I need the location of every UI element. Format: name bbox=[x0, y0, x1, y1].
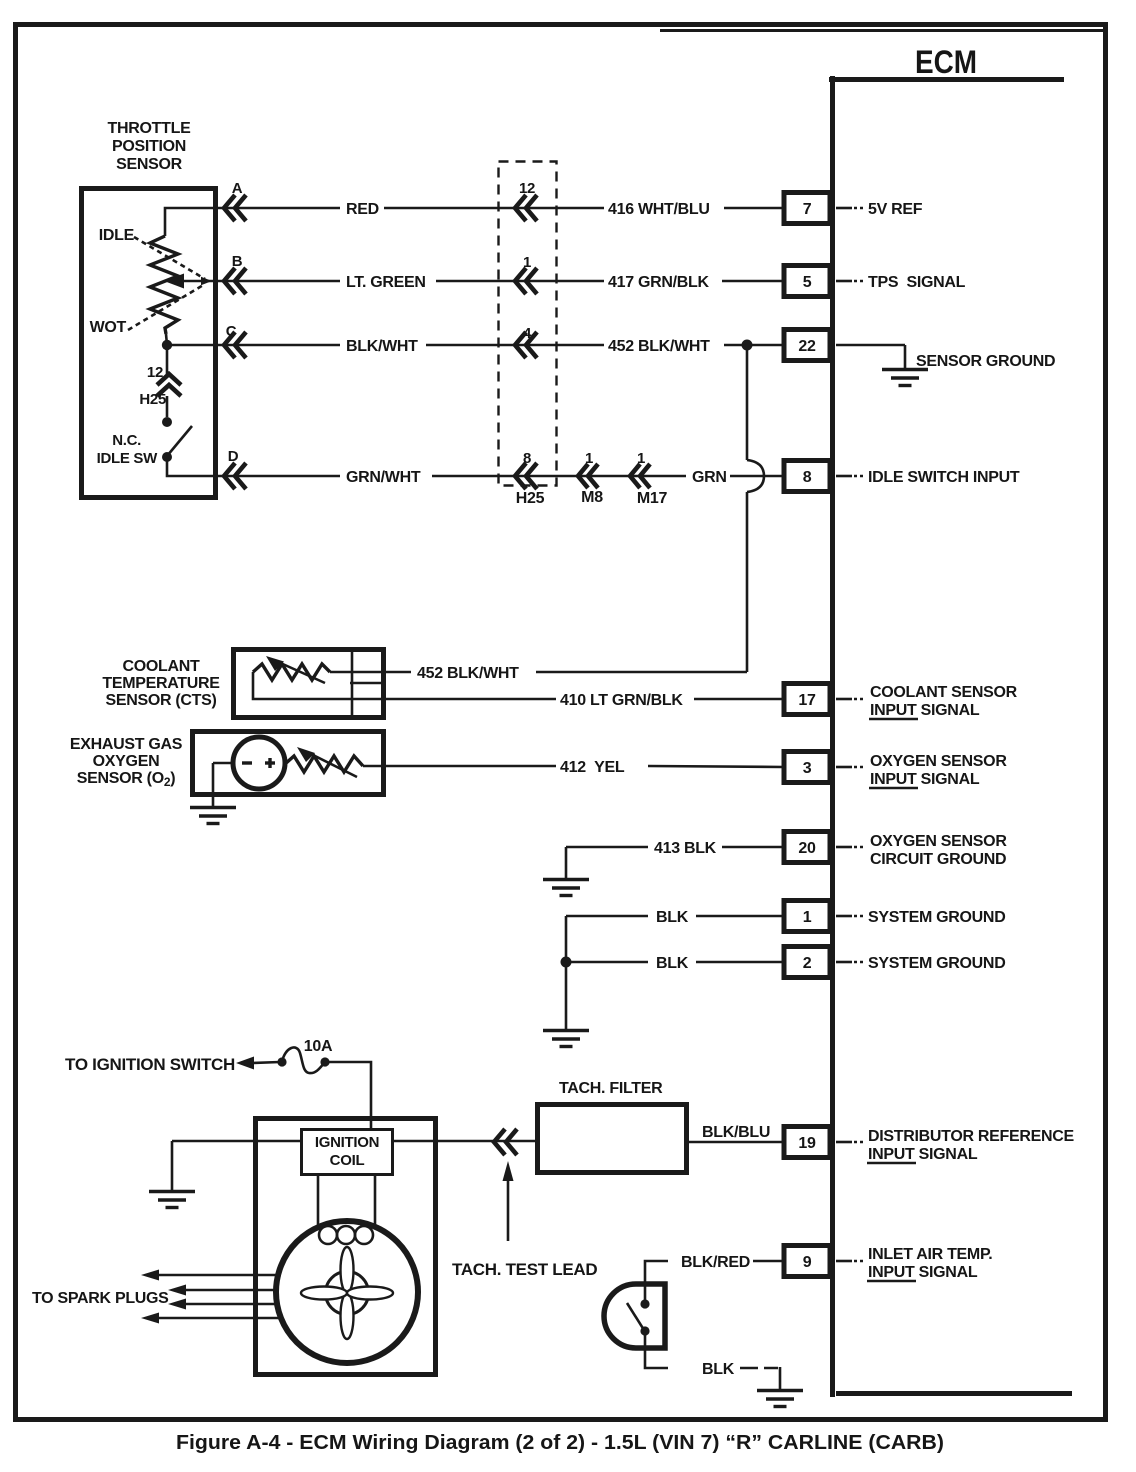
ECM pin 19 box bbox=[784, 1127, 830, 1158]
ignition coil box bbox=[302, 1130, 393, 1175]
svg-text:INPUT SIGNAL: INPUT SIGNAL bbox=[868, 1264, 978, 1281]
H25 pin 12 arrows bbox=[515, 195, 537, 221]
svg-text:22: 22 bbox=[798, 338, 816, 355]
IGNITION COIL label bbox=[315, 1134, 379, 1169]
M17 connector arrows bbox=[630, 464, 650, 488]
ECM pin 7 box bbox=[784, 193, 830, 224]
svg-text:COIL: COIL bbox=[330, 1152, 365, 1169]
svg-text:COOLANT: COOLANT bbox=[122, 658, 200, 675]
ECM pin 3 box bbox=[784, 752, 830, 783]
svg-text:17: 17 bbox=[798, 692, 816, 709]
pin 20 label OXYGEN SENSOR CIRCUIT GROUND bbox=[836, 833, 1007, 868]
svg-text:RED: RED bbox=[346, 201, 379, 218]
svg-text:413 BLK: 413 BLK bbox=[654, 840, 717, 857]
svg-text:INPUT SIGNAL: INPUT SIGNAL bbox=[870, 771, 980, 788]
svg-text:INLET AIR TEMP.: INLET AIR TEMP. bbox=[868, 1246, 992, 1263]
svg-text:INPUT SIGNAL: INPUT SIGNAL bbox=[868, 1146, 978, 1163]
wire 412 YEL bbox=[363, 766, 784, 767]
coil ground symbol bbox=[149, 1192, 195, 1208]
svg-text:Figure A-4 - ECM Wiring Diag: Figure A-4 - ECM Wiring Diagram (2 of 2)… bbox=[176, 1432, 944, 1454]
svg-text:GRN: GRN bbox=[692, 469, 727, 486]
pin 19 label DISTRIBUTOR REFERENCE INPUT SIGNAL bbox=[836, 1128, 1074, 1163]
junction dot 452 bbox=[742, 340, 753, 351]
terminal B connector arrows bbox=[224, 268, 246, 294]
coil left ground lead bbox=[171, 1141, 174, 1190]
coolant temperature sensor CTS labels bbox=[102, 658, 220, 709]
ECM pin 17 box bbox=[784, 684, 830, 715]
svg-text:SENSOR: SENSOR bbox=[116, 156, 183, 173]
svg-text:416 WHT/BLU: 416 WHT/BLU bbox=[608, 201, 710, 218]
svg-text:9: 9 bbox=[803, 1254, 812, 1271]
H25 pin 4 arrows bbox=[515, 332, 537, 358]
svg-text:10A: 10A bbox=[304, 1038, 333, 1055]
svg-text:TEMPERATURE: TEMPERATURE bbox=[102, 675, 220, 692]
pin 3 label OXYGEN SENSOR INPUT SIGNAL bbox=[836, 753, 1007, 788]
svg-text:TPS SIGNAL: TPS SIGNAL bbox=[868, 274, 966, 291]
inlet sensor ground symbol bbox=[757, 1391, 803, 1407]
svg-text:TACH. FILTER: TACH. FILTER bbox=[559, 1080, 663, 1097]
413 ground symbol bbox=[543, 880, 589, 896]
svg-text:19: 19 bbox=[798, 1135, 816, 1152]
svg-text:EXHAUST GAS: EXHAUST GAS bbox=[70, 736, 183, 753]
CTS internal wires bbox=[253, 672, 386, 699]
pin 9 label INLET AIR TEMP. INPUT SIGNAL bbox=[836, 1246, 992, 1281]
svg-text:BLK: BLK bbox=[702, 1361, 735, 1378]
wire 452 BLK/WHT vertical with hop over GRN bbox=[747, 345, 764, 672]
svg-text:GRN/WHT: GRN/WHT bbox=[346, 469, 421, 486]
distributor outer box bbox=[256, 1119, 436, 1375]
terminal D connector arrows bbox=[224, 463, 246, 489]
wire tach filter to pin 19 bbox=[687, 1141, 784, 1144]
ECM pin 22 box bbox=[784, 330, 830, 361]
wire 452 BLK/WHT from CTS bbox=[386, 671, 747, 674]
spark plug wire 1 bbox=[141, 1270, 281, 1281]
ECM box bbox=[829, 76, 1072, 1397]
svg-text:N.C.: N.C. bbox=[112, 432, 141, 449]
svg-text:SENSOR GROUND: SENSOR GROUND bbox=[916, 353, 1055, 370]
svg-text:IDLE SW: IDLE SW bbox=[97, 450, 159, 467]
svg-text:SENSOR (CTS): SENSOR (CTS) bbox=[105, 692, 216, 709]
wiper arrow bbox=[164, 274, 222, 289]
H25 pin 1 arrows bbox=[515, 268, 537, 294]
coil winding loops bbox=[319, 1226, 373, 1244]
ignition switch arrowhead bbox=[236, 1057, 254, 1070]
idle switch upper contact dot bbox=[162, 417, 172, 427]
terminal A connector arrows bbox=[224, 195, 246, 221]
exhaust gas oxygen sensor labels bbox=[70, 736, 183, 789]
wire 410 LT GRN/BLK bbox=[386, 698, 784, 701]
tach filter box bbox=[538, 1105, 687, 1173]
wire 413 BLK bbox=[566, 847, 784, 878]
dashed wiper travel lines bbox=[128, 237, 212, 330]
pin 2 label SYSTEM GROUND bbox=[836, 955, 1005, 972]
idle switch blade bbox=[162, 426, 192, 462]
svg-text:POSITION: POSITION bbox=[112, 138, 186, 155]
svg-text:LT. GREEN: LT. GREEN bbox=[346, 274, 426, 291]
svg-text:20: 20 bbox=[798, 840, 816, 857]
svg-text:M17: M17 bbox=[637, 490, 668, 507]
svg-text:H25: H25 bbox=[139, 391, 166, 408]
pin 7 label 5V REF bbox=[836, 201, 923, 218]
svg-text:TO IGNITION SWITCH: TO IGNITION SWITCH bbox=[65, 1055, 235, 1074]
svg-text:CIRCUIT GROUND: CIRCUIT GROUND bbox=[870, 851, 1006, 868]
svg-text:12: 12 bbox=[147, 364, 163, 381]
svg-text:1: 1 bbox=[803, 909, 812, 926]
svg-text:TO SPARK PLUGS: TO SPARK PLUGS bbox=[32, 1290, 169, 1307]
coolant temperature sensor box bbox=[234, 650, 384, 718]
wire LT. GREEN row B bbox=[222, 280, 784, 283]
svg-text:WOT: WOT bbox=[90, 319, 127, 336]
ECM pin 2 box bbox=[784, 947, 830, 978]
potentiometer resistor bbox=[150, 236, 178, 334]
O2 ground symbol bbox=[190, 808, 236, 824]
svg-text:5V REF: 5V REF bbox=[868, 201, 923, 218]
terminal C connector arrows bbox=[224, 332, 246, 358]
exhaust gas oxygen sensor box bbox=[193, 732, 384, 795]
spark plug wire 3 bbox=[168, 1299, 277, 1310]
wire idle switch to terminal D bbox=[167, 457, 222, 476]
svg-text:TACH. TEST LEAD: TACH. TEST LEAD bbox=[452, 1260, 597, 1279]
svg-text:M8: M8 bbox=[581, 489, 603, 506]
BLK junction dot bbox=[561, 957, 572, 968]
pin 8 label IDLE SWITCH INPUT bbox=[836, 469, 1020, 486]
svg-text:BLK: BLK bbox=[656, 955, 689, 972]
ECM pin 9 box bbox=[784, 1246, 830, 1277]
svg-text:412 YEL: 412 YEL bbox=[560, 759, 625, 776]
wire fuse to ignition coil bbox=[325, 1062, 371, 1128]
svg-text:5: 5 bbox=[803, 274, 812, 291]
distributor circle bbox=[276, 1221, 418, 1363]
wire connector to idle switch dot bbox=[166, 396, 169, 417]
svg-text:THROTTLE: THROTTLE bbox=[108, 120, 192, 137]
svg-text:BLK/RED: BLK/RED bbox=[681, 1254, 750, 1271]
svg-text:BLK/WHT: BLK/WHT bbox=[346, 338, 418, 355]
coil secondary wires bbox=[318, 1175, 375, 1229]
spark plug wire 2 bbox=[168, 1285, 277, 1296]
svg-text:ECM: ECM bbox=[915, 44, 977, 80]
inlet air temp switch contacts bbox=[627, 1299, 650, 1335]
svg-text:DISTRIBUTOR REFERENCE: DISTRIBUTOR REFERENCE bbox=[868, 1128, 1074, 1145]
svg-text:2: 2 bbox=[803, 955, 812, 972]
system ground symbol bbox=[543, 1031, 589, 1047]
ECM pin 1 box bbox=[784, 901, 830, 932]
tach test lead arrow bbox=[503, 1161, 514, 1241]
pin 1 label SYSTEM GROUND bbox=[836, 909, 1005, 926]
wire BLK to ground (inlet sensor) bbox=[645, 1331, 780, 1389]
wire RED row A bbox=[222, 207, 784, 210]
svg-text:H25: H25 bbox=[516, 490, 545, 507]
inline connector 12 H25 up arrows bbox=[157, 374, 181, 396]
svg-text:IGNITION: IGNITION bbox=[315, 1134, 379, 1151]
svg-text:OXYGEN: OXYGEN bbox=[93, 753, 160, 770]
fuse 10A bbox=[277, 1047, 329, 1073]
pin 5 label TPS SIGNAL bbox=[836, 274, 966, 291]
wire TPS terminal A internal bbox=[165, 208, 222, 236]
svg-text:IDLE: IDLE bbox=[99, 227, 135, 244]
svg-text:12: 12 bbox=[519, 180, 535, 197]
wire BLK/WHT row C bbox=[222, 344, 784, 347]
svg-text:OXYGEN SENSOR: OXYGEN SENSOR bbox=[870, 753, 1007, 770]
wire GRN/WHT row D bbox=[222, 475, 784, 478]
CTS thermistor resistor bbox=[253, 656, 330, 683]
H25 harness connector dashed box bbox=[499, 162, 557, 486]
O2 cell circle with polarity bbox=[233, 737, 285, 789]
svg-text:SENSOR (O2): SENSOR (O2) bbox=[77, 770, 176, 789]
svg-text:COOLANT SENSOR: COOLANT SENSOR bbox=[870, 684, 1018, 701]
svg-text:410 LT GRN/BLK: 410 LT GRN/BLK bbox=[560, 692, 683, 709]
wire to fuse bbox=[252, 1062, 280, 1063]
wire BLK/RED to pin 9 bbox=[645, 1261, 784, 1304]
svg-text:SYSTEM GROUND: SYSTEM GROUND bbox=[868, 909, 1005, 926]
wire BLK pin 2 bbox=[566, 962, 784, 1029]
wire from C dot down to inline connector bbox=[166, 345, 169, 374]
svg-text:417 GRN/BLK: 417 GRN/BLK bbox=[608, 274, 709, 291]
svg-text:IDLE SWITCH INPUT: IDLE SWITCH INPUT bbox=[868, 469, 1020, 486]
throttle position sensor box bbox=[82, 189, 216, 498]
svg-text:INPUT SIGNAL: INPUT SIGNAL bbox=[870, 702, 980, 719]
svg-text:BLK/BLU: BLK/BLU bbox=[702, 1124, 770, 1141]
O2 resistor bbox=[285, 747, 363, 777]
svg-text:SYSTEM GROUND: SYSTEM GROUND bbox=[868, 955, 1005, 972]
ECM pin 20 box bbox=[784, 832, 830, 863]
M8 connector arrows bbox=[578, 464, 598, 488]
svg-text:3: 3 bbox=[803, 760, 812, 777]
N.C. IDLE SW label bbox=[97, 432, 159, 467]
wire BLK pin 1 bbox=[566, 916, 784, 962]
H25 pin 8 arrows bbox=[515, 463, 537, 489]
pin 22 wire to sensor ground bbox=[836, 345, 905, 368]
inlet air temp sensor body bbox=[604, 1284, 665, 1348]
sensor ground symbol bbox=[882, 370, 928, 386]
svg-text:8: 8 bbox=[803, 469, 812, 486]
svg-text:452 BLK/WHT: 452 BLK/WHT bbox=[608, 338, 710, 355]
svg-text:7: 7 bbox=[803, 201, 812, 218]
tach connector arrows bbox=[494, 1129, 517, 1155]
O2 internal wire and ground lead bbox=[213, 763, 233, 806]
distributor rotor fan bbox=[301, 1247, 393, 1339]
svg-text:452 BLK/WHT: 452 BLK/WHT bbox=[417, 665, 519, 682]
ECM pin 8 box bbox=[784, 461, 830, 492]
ECM pin 5 box bbox=[784, 266, 830, 297]
svg-text:BLK: BLK bbox=[656, 909, 689, 926]
wire B+ feed horizontal through coil bbox=[172, 1140, 536, 1143]
node C junction dot bbox=[162, 334, 222, 350]
svg-text:OXYGEN SENSOR: OXYGEN SENSOR bbox=[870, 833, 1007, 850]
spark plug wire 4 bbox=[141, 1313, 281, 1324]
pin 17 label COOLANT SENSOR INPUT SIGNAL bbox=[836, 684, 1018, 719]
